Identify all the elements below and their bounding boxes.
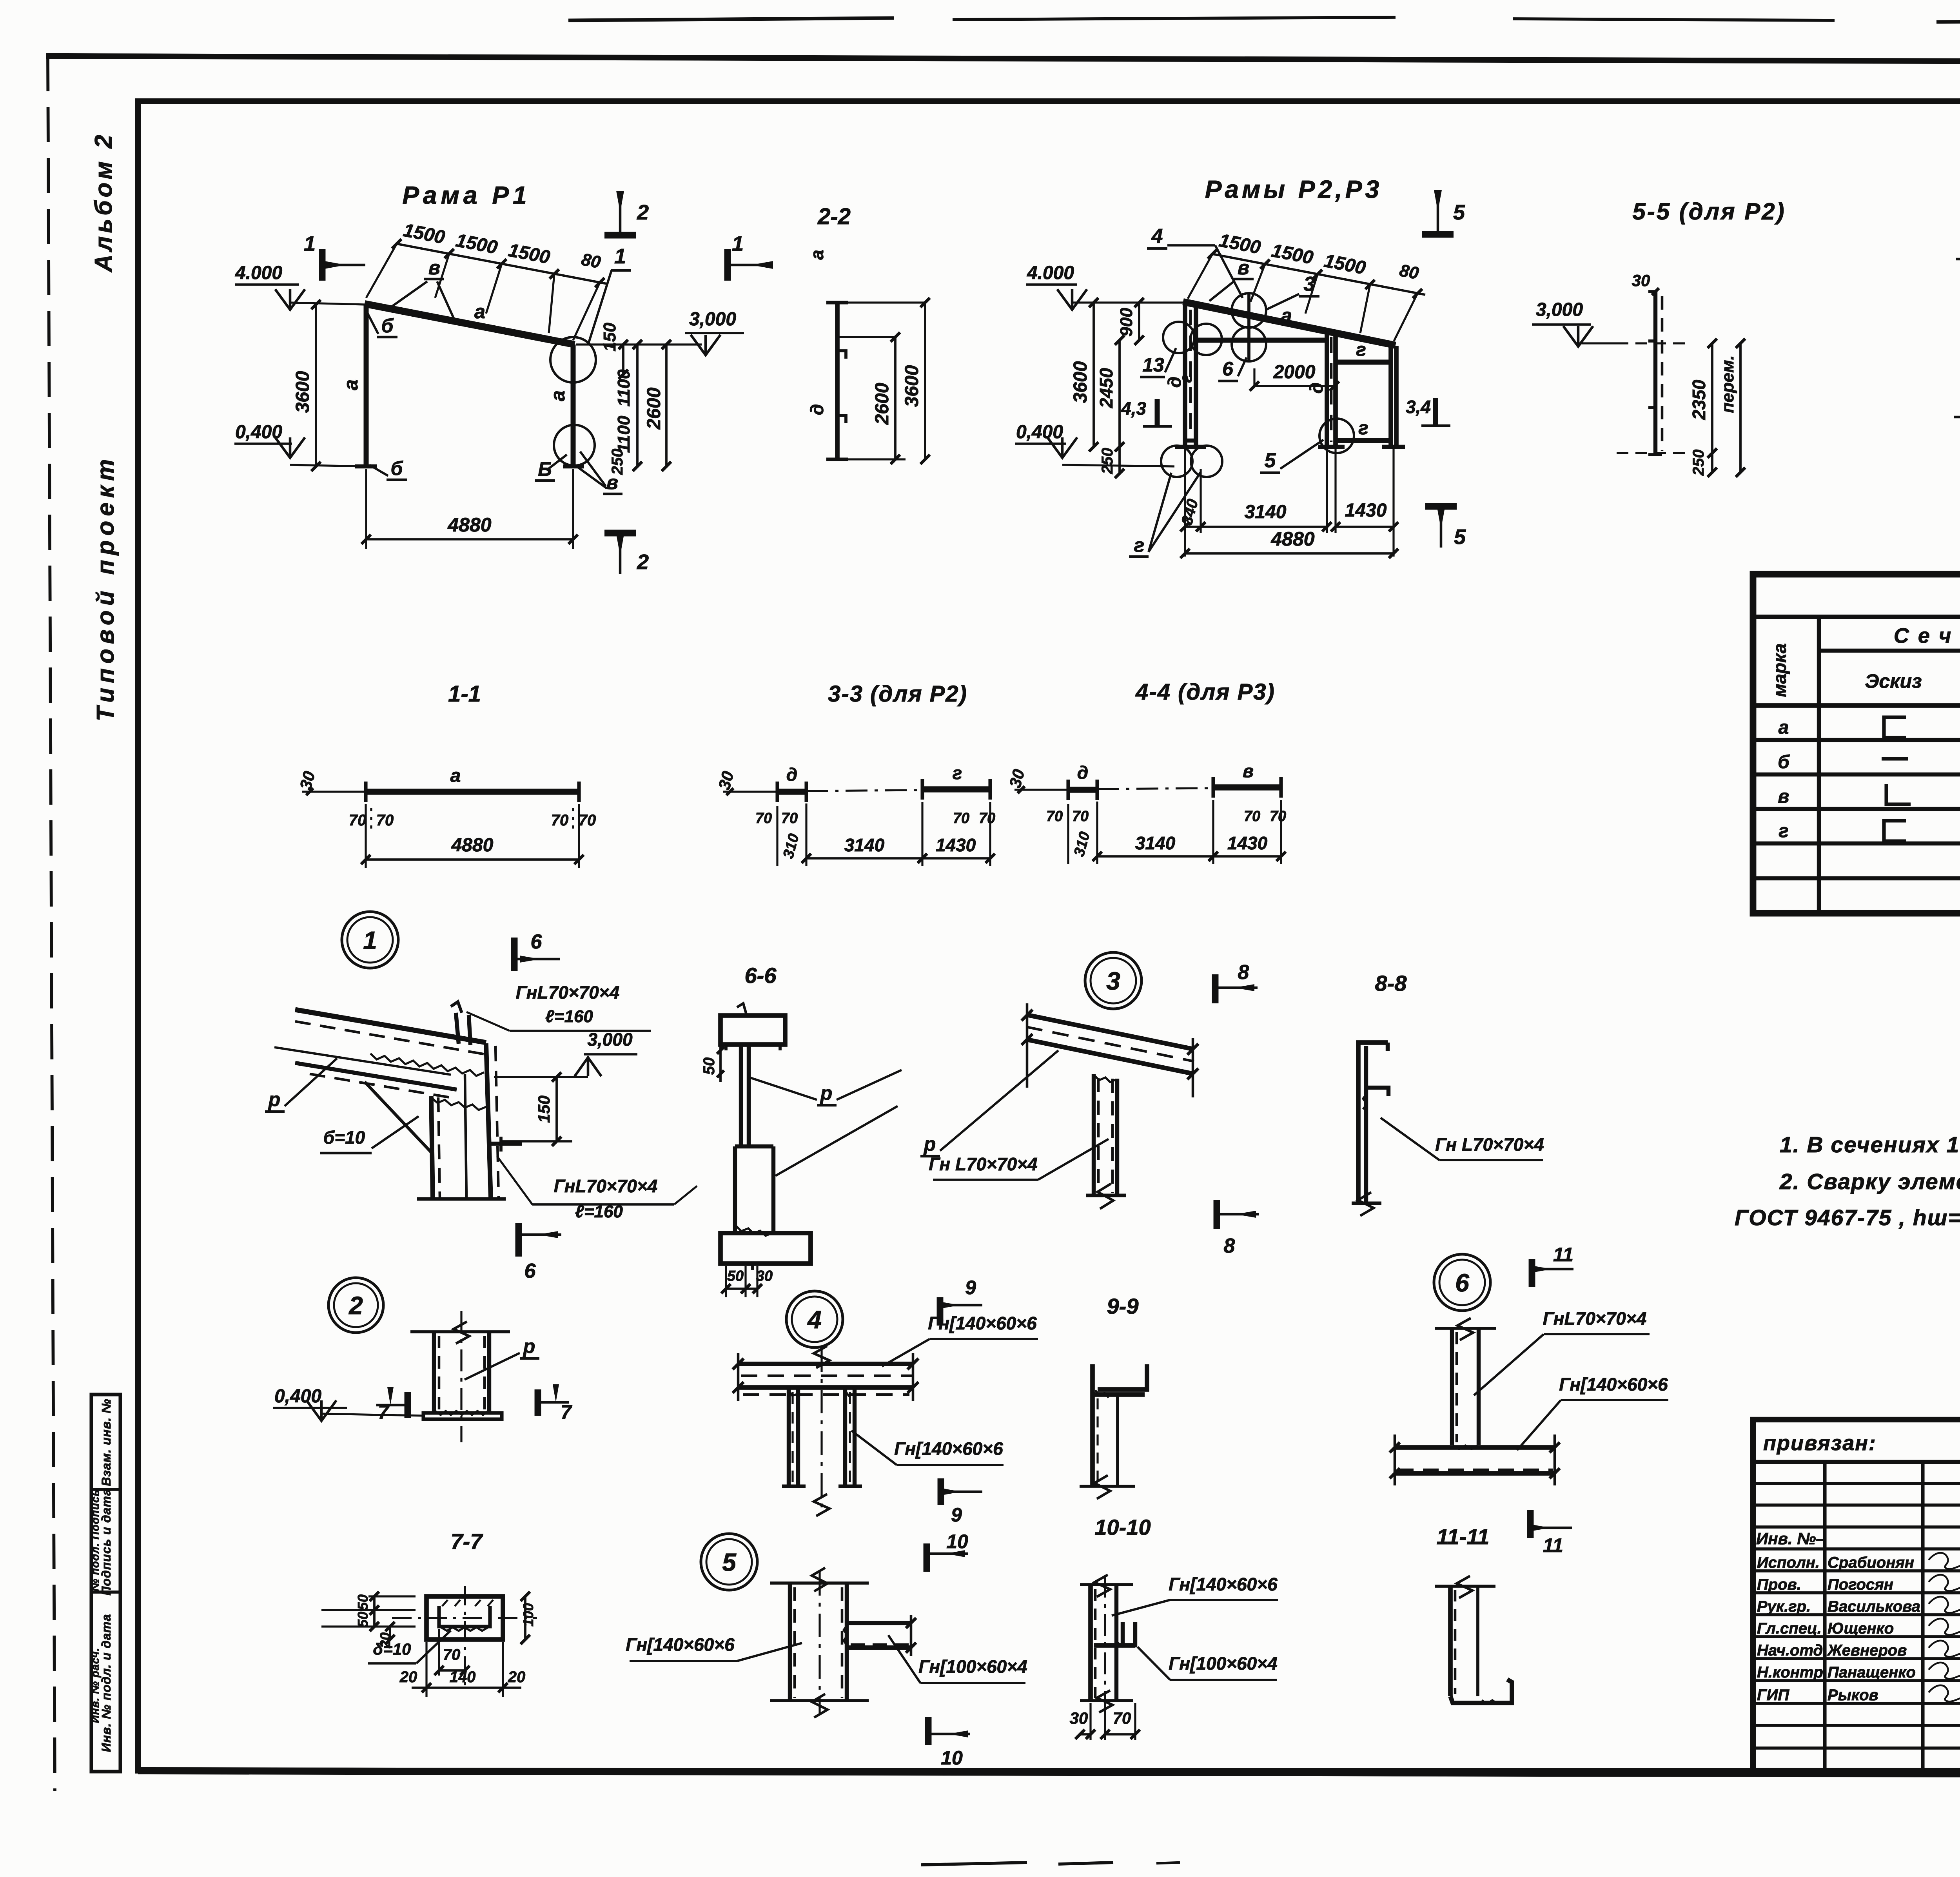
svg-text:ГнL70×70×4: ГнL70×70×4 xyxy=(1543,1308,1647,1329)
2 base plate xyxy=(423,1411,502,1419)
note line 2 xyxy=(1779,1169,1960,1194)
svg-text:а: а xyxy=(474,301,485,323)
svg-text:2450: 2450 xyxy=(1096,368,1116,408)
header Эскиз xyxy=(1865,670,1922,692)
title 3-3 (для Р2) xyxy=(828,681,967,707)
P1 section flag 1 right xyxy=(728,232,773,281)
4 label ГнС140х60х6 top xyxy=(882,1313,1038,1366)
P1 label б top xyxy=(368,314,397,337)
svg-text:Гн[140×60×6: Гн[140×60×6 xyxy=(894,1438,1003,1459)
svg-text:а: а xyxy=(807,250,827,260)
1 section flag 6 top xyxy=(514,930,560,971)
svg-text:250: 250 xyxy=(609,449,626,475)
P2 dim 2000 xyxy=(1250,362,1339,391)
P2 dim 900 xyxy=(1117,298,1144,345)
svg-text:20: 20 xyxy=(399,1668,417,1686)
6 beam xyxy=(1390,1434,1560,1485)
svg-text:1. В сечениях 1-1, 3-3, 4-4: 1. В сечениях 1-1, 3-3, 4-4 элемент „в“ … xyxy=(1780,1132,1960,1157)
1-1 dim 4880 xyxy=(361,804,584,868)
svg-text:Рук.гр.: Рук.гр. xyxy=(1757,1598,1811,1615)
svg-text:б=10: б=10 xyxy=(323,1127,365,1148)
svg-text:4880: 4880 xyxy=(1270,528,1314,550)
P2 beam г upper xyxy=(1336,339,1391,362)
svg-text:б: б xyxy=(1778,752,1790,773)
5-5 label 30 xyxy=(1632,271,1659,295)
svg-text:С е ч е н и е: С е ч е н и е xyxy=(1894,624,1960,647)
svg-text:11: 11 xyxy=(1543,1534,1563,1556)
svg-text:10-10: 10-10 xyxy=(1094,1515,1151,1540)
P1 bottom dim 4880 xyxy=(361,469,578,549)
svg-text:№ подл. Подпись: № подл. Подпись xyxy=(89,1489,101,1591)
svg-text:3,000: 3,000 xyxy=(1536,299,1583,320)
svg-text:4.000: 4.000 xyxy=(235,263,282,283)
svg-text:Исполн.: Исполн. xyxy=(1757,1554,1820,1571)
13 top break line xyxy=(1956,245,1960,273)
P1 detail circle node lower xyxy=(554,425,595,466)
svg-text:Инв. № расч.: Инв. № расч. xyxy=(89,1648,101,1723)
title Рама Р1 xyxy=(402,181,530,209)
svg-text:Жевнеров: Жевнеров xyxy=(1827,1642,1907,1659)
P2 label в xyxy=(1209,257,1254,301)
5 section flag 10 top xyxy=(927,1531,968,1572)
2 section flag 7 right xyxy=(538,1384,572,1423)
P2 beam level 900 xyxy=(1196,338,1327,343)
P1 section flag 2 top xyxy=(604,191,649,235)
1 gusset xyxy=(365,1054,484,1152)
P2 level 4.000 xyxy=(1026,263,1183,310)
7-7 axes xyxy=(392,1586,537,1685)
P2 left column xyxy=(1175,303,1206,447)
5 label ГнС140х60х6 xyxy=(626,1634,802,1661)
row в mark xyxy=(1778,786,1789,807)
svg-text:г: г xyxy=(1358,418,1368,439)
4-4 axis link xyxy=(1097,788,1213,789)
P1 right dim 250 xyxy=(609,449,626,475)
4 posts xyxy=(782,1387,862,1486)
1 label ГнL70х70х4 l=160 bottom xyxy=(497,1156,697,1221)
4-4 dim 1430 xyxy=(1209,800,1286,864)
svg-text:100: 100 xyxy=(520,1603,536,1627)
table row lines xyxy=(1753,740,1960,878)
P2 label д left col xyxy=(1164,377,1185,388)
svg-text:150: 150 xyxy=(535,1095,553,1123)
P1 dim 80 xyxy=(580,250,603,272)
svg-text:1430: 1430 xyxy=(936,835,976,855)
svg-text:Гл.спец.: Гл.спец. xyxy=(1757,1620,1822,1637)
1-1 dims 70 70 right xyxy=(551,808,596,833)
left bottom stamp strip xyxy=(89,1395,120,1772)
row a sketch channel xyxy=(1884,717,1906,738)
svg-text:70: 70 xyxy=(755,810,772,827)
P2 right column xyxy=(1382,345,1405,447)
svg-text:8: 8 xyxy=(1224,1235,1235,1257)
outer sheet border top xyxy=(46,56,1960,63)
svg-text:7-7: 7-7 xyxy=(451,1529,484,1554)
svg-text:Гн[140×60×6: Гн[140×60×6 xyxy=(928,1313,1037,1333)
svg-text:0,400: 0,400 xyxy=(1016,422,1063,443)
svg-text:4: 4 xyxy=(807,1306,822,1334)
4-4 extension left xyxy=(1005,767,1068,793)
svg-text:1430: 1430 xyxy=(1345,500,1387,521)
4 label ГнС140х60х6 low xyxy=(851,1431,1004,1465)
P2 dim 3600 xyxy=(1070,298,1098,452)
svg-text:Гн L70×70×4: Гн L70×70×4 xyxy=(929,1154,1037,1174)
P2 node circles left top xyxy=(1163,322,1222,355)
P1 level 4.000 xyxy=(235,263,365,310)
row г sketch channel xyxy=(1884,821,1906,841)
svg-text:Рыков: Рыков xyxy=(1828,1687,1878,1704)
detail circle 2 xyxy=(328,1278,383,1333)
svg-text:а: а xyxy=(1779,717,1789,738)
svg-text:250: 250 xyxy=(1099,448,1116,475)
svg-text:д: д xyxy=(1306,383,1327,394)
svg-text:70: 70 xyxy=(579,812,596,829)
6-6 label р xyxy=(751,1070,902,1176)
svg-text:в: в xyxy=(1243,761,1254,781)
P2 beam г lower xyxy=(1336,418,1391,441)
svg-text:б: б xyxy=(391,457,404,479)
P1 top dim line xyxy=(366,239,607,340)
svg-text:4: 4 xyxy=(1151,225,1163,248)
header Марка xyxy=(1769,643,1790,697)
svg-text:5-5 (для Р2): 5-5 (для Р2) xyxy=(1632,198,1786,225)
svg-text:3-3 (для Р2): 3-3 (для Р2) xyxy=(828,681,967,707)
3 label р xyxy=(920,1050,1058,1156)
1 label р xyxy=(265,1058,337,1112)
margin caption Типовой проект xyxy=(92,455,119,722)
svg-text:3: 3 xyxy=(1106,967,1120,995)
title 5-5 (для Р2) xyxy=(1632,198,1786,225)
svg-text:50: 50 xyxy=(701,1057,718,1075)
stamp column lines xyxy=(1825,1462,1960,1771)
2-2 dim 3600 xyxy=(837,298,930,464)
svg-text:50: 50 xyxy=(355,1612,371,1627)
svg-text:70: 70 xyxy=(979,810,995,827)
row г mark xyxy=(1779,821,1789,841)
svg-text:9: 9 xyxy=(951,1504,962,1526)
3-3 axis link xyxy=(806,790,922,791)
svg-text:250: 250 xyxy=(1690,450,1707,476)
1 column xyxy=(417,1043,506,1199)
svg-text:6: 6 xyxy=(1455,1269,1469,1297)
3 beam xyxy=(1022,1003,1198,1097)
1-1 dims 70 70 left xyxy=(349,808,394,833)
1 label б=10 xyxy=(320,1116,419,1153)
P1 level 0.400 xyxy=(234,422,365,466)
row a mark xyxy=(1779,717,1789,738)
5 section flag 10 bottom xyxy=(928,1717,970,1769)
svg-text:3140: 3140 xyxy=(1135,833,1176,853)
svg-text:11-11: 11-11 xyxy=(1437,1524,1490,1549)
svg-text:Эскиз: Эскиз xyxy=(1865,670,1922,692)
P1 label а right col xyxy=(547,390,569,401)
P1 right dim 1100 b xyxy=(614,340,642,471)
title 2-2 xyxy=(817,204,851,229)
svg-text:30: 30 xyxy=(1632,271,1650,290)
P1 detail circle node 1 xyxy=(550,337,596,383)
1 roof beam xyxy=(274,1010,486,1098)
P2 leader 5 xyxy=(1260,440,1323,473)
P1 dim 3600 xyxy=(292,300,321,471)
table Ведомость элементов outer xyxy=(1753,574,1960,913)
title 9-9 xyxy=(1107,1294,1139,1318)
svg-text:1430: 1430 xyxy=(1227,833,1268,853)
3-3 dim 1430 xyxy=(918,802,995,866)
svg-text:р: р xyxy=(523,1335,535,1357)
svg-text:Погосян: Погосян xyxy=(1828,1576,1893,1593)
P2 flag 4,3 xyxy=(1121,398,1172,426)
svg-text:р: р xyxy=(923,1133,936,1155)
svg-text:3,000: 3,000 xyxy=(689,309,736,330)
svg-text:Гн[140×60×6: Гн[140×60×6 xyxy=(1169,1574,1278,1594)
svg-text:3: 3 xyxy=(1304,273,1315,296)
svg-text:8: 8 xyxy=(1238,961,1249,984)
svg-text:20: 20 xyxy=(508,1668,526,1686)
svg-text:Гн[100×60×4: Гн[100×60×4 xyxy=(918,1656,1027,1677)
6-6 dims bottom xyxy=(721,1266,773,1297)
3-3 member г xyxy=(922,763,990,800)
svg-text:2: 2 xyxy=(348,1291,363,1320)
P1 left column xyxy=(355,305,377,466)
7-7 dim 100 right xyxy=(520,1592,536,1644)
5-5 level 3.000 xyxy=(1532,299,1617,346)
scan streak top a xyxy=(568,18,894,20)
4-4 dim 310 xyxy=(1071,830,1093,858)
title 10-10 xyxy=(1094,1515,1151,1540)
2 section flag 7 left xyxy=(376,1387,408,1423)
row б sketch strip xyxy=(1882,757,1908,760)
detail circle 1 xyxy=(342,912,398,968)
3 column xyxy=(1086,1074,1126,1209)
10-10 bracket channel xyxy=(1094,1622,1135,1647)
svg-text:Н.контр.: Н.контр. xyxy=(1757,1664,1828,1681)
6-6 bracket channel xyxy=(735,1146,773,1236)
svg-text:1: 1 xyxy=(363,926,377,954)
svg-text:Гн L70×70×4: Гн L70×70×4 xyxy=(1435,1134,1544,1155)
svg-text:марка: марка xyxy=(1769,643,1790,697)
svg-text:4880: 4880 xyxy=(451,835,494,856)
svg-text:150: 150 xyxy=(600,323,619,352)
scan streak top d xyxy=(1936,20,1960,22)
svg-text:ℓ=160: ℓ=160 xyxy=(545,1007,593,1026)
svg-text:70: 70 xyxy=(1270,808,1286,825)
P1 dim 1500 c xyxy=(506,240,552,268)
5-5 level line top xyxy=(1617,342,1686,344)
3-3 dim 310 xyxy=(780,832,802,860)
svg-text:в: в xyxy=(428,257,440,279)
2-2 label д xyxy=(807,404,827,415)
svg-text:80: 80 xyxy=(1398,261,1421,283)
P1 right dim 2600 xyxy=(644,340,671,471)
7-7 dims bottom xyxy=(399,1642,526,1697)
svg-text:ГОСТ 9467-75 , hш= 6 мм: ГОСТ 9467-75 , hш= 6 мм xyxy=(1735,1205,1960,1230)
P2 flag 3,4 right xyxy=(1406,397,1450,426)
5 label ГнС100х60х4 xyxy=(888,1635,1027,1683)
svg-text:6-6: 6-6 xyxy=(745,963,777,988)
P2 dim 250 xyxy=(1099,442,1124,478)
svg-text:50: 50 xyxy=(727,1268,744,1284)
svg-text:3,4: 3,4 xyxy=(1406,397,1431,417)
4-4 dim 3140 xyxy=(1093,802,1218,864)
svg-text:δ=10: δ=10 xyxy=(373,1640,411,1658)
P2 dim 2450 xyxy=(1096,336,1124,452)
P1 right dim 1100 a xyxy=(614,369,633,406)
3-3 dim 3140 xyxy=(802,803,927,866)
svg-text:1100: 1100 xyxy=(614,415,633,453)
svg-text:б: б xyxy=(381,315,394,337)
margin caption Альбом 2 xyxy=(90,132,117,273)
svg-text:1-1: 1-1 xyxy=(448,681,481,707)
P2 mid column xyxy=(1318,332,1345,447)
svg-text:70: 70 xyxy=(781,810,798,827)
svg-text:Инв. №–: Инв. №– xyxy=(1756,1529,1825,1548)
P2 leader 6 xyxy=(1218,357,1247,381)
P2 node circles left base xyxy=(1161,446,1222,477)
svg-text:ГнL70×70×4: ГнL70×70×4 xyxy=(516,982,620,1003)
svg-text:2600: 2600 xyxy=(644,387,664,430)
6-6 bottom flange xyxy=(720,1233,811,1270)
P2 dim 1500 c xyxy=(1322,250,1367,279)
svg-text:70: 70 xyxy=(551,812,569,829)
detail circle 3 xyxy=(1085,952,1142,1009)
svg-text:Гн[140×60×6: Гн[140×60×6 xyxy=(1559,1374,1668,1395)
svg-text:70: 70 xyxy=(376,812,394,829)
svg-text:50: 50 xyxy=(355,1594,371,1610)
svg-text:70: 70 xyxy=(1113,1709,1131,1727)
row в sketch angle xyxy=(1886,784,1911,804)
svg-text:4-4 (для Р3): 4-4 (для Р3) xyxy=(1135,679,1275,705)
svg-text:Гн[140×60×6: Гн[140×60×6 xyxy=(626,1634,735,1655)
row б mark xyxy=(1778,752,1790,773)
svg-text:а: а xyxy=(340,379,362,390)
1-1 member a xyxy=(366,765,579,802)
scan streak top c xyxy=(1513,19,1835,20)
P1 dim 1500 a xyxy=(401,220,446,248)
svg-text:Инв. № подл. и дата: Инв. № подл. и дата xyxy=(99,1614,113,1752)
svg-text:2-2: 2-2 xyxy=(817,204,851,229)
P2 leader 4 xyxy=(1147,225,1243,298)
svg-text:р: р xyxy=(268,1088,281,1110)
svg-text:ГнL70×70×4: ГнL70×70×4 xyxy=(554,1176,658,1196)
P2 left col web plate xyxy=(1176,374,1196,441)
svg-text:3,000: 3,000 xyxy=(587,1029,633,1050)
svg-text:9-9: 9-9 xyxy=(1107,1294,1139,1318)
title 1-1 xyxy=(448,681,481,707)
svg-text:30: 30 xyxy=(756,1268,773,1284)
P2 bottom dims xyxy=(1178,449,1398,558)
svg-text:р: р xyxy=(820,1082,833,1104)
svg-text:11: 11 xyxy=(1553,1244,1573,1266)
10-10 labels xyxy=(1112,1574,1278,1680)
stamp table привязан outer xyxy=(1753,1420,1960,1771)
P2 dim 1500 b xyxy=(1270,240,1315,268)
outer sheet border left xyxy=(48,56,55,1791)
2-2 dim 2600 xyxy=(837,332,906,464)
svg-text:2. Сварку элементов произво: 2. Сварку элементов производить электрод… xyxy=(1779,1169,1960,1194)
3 weld xyxy=(1094,1075,1116,1082)
svg-text:6: 6 xyxy=(531,930,543,953)
P1 top chord xyxy=(365,304,575,345)
5-5 member xyxy=(1648,292,1662,455)
3-3 extension left xyxy=(715,769,777,795)
svg-text:5: 5 xyxy=(722,1548,737,1576)
svg-text:70: 70 xyxy=(443,1646,461,1663)
svg-text:7: 7 xyxy=(561,1401,572,1423)
P1 section flag 2 bottom xyxy=(604,533,649,574)
svg-text:10: 10 xyxy=(941,1747,963,1769)
6 section flag 11 top xyxy=(1532,1244,1573,1287)
P1 section flag 1 left xyxy=(304,232,365,281)
svg-text:Ющенко: Ющенко xyxy=(1828,1620,1894,1637)
10-10 column xyxy=(1080,1575,1133,1717)
4-4 dims left xyxy=(1046,804,1089,864)
7-7 label б=10 xyxy=(368,1630,451,1663)
title 11-11 xyxy=(1437,1524,1490,1549)
svg-text:5: 5 xyxy=(1265,449,1276,472)
svg-text:5: 5 xyxy=(1453,201,1465,224)
svg-text:1: 1 xyxy=(732,232,744,256)
title 8-8 xyxy=(1375,971,1407,996)
2-2 label а xyxy=(807,250,827,260)
svg-text:3600: 3600 xyxy=(1070,361,1091,403)
svg-text:70: 70 xyxy=(349,812,367,829)
P2 dim 1500 a xyxy=(1217,230,1262,258)
svg-text:д: д xyxy=(786,764,797,785)
svg-text:140: 140 xyxy=(450,1668,476,1686)
table header lines xyxy=(1753,651,1960,705)
svg-text:3600: 3600 xyxy=(902,365,922,407)
P1 label б bottom left xyxy=(369,457,407,480)
svg-text:г: г xyxy=(953,763,962,783)
detail circle 4 xyxy=(786,1291,843,1347)
svg-text:6: 6 xyxy=(524,1260,536,1282)
1 bracket mark xyxy=(491,1137,522,1152)
svg-text:д: д xyxy=(807,404,827,415)
P2 node circle mid base xyxy=(1319,419,1354,453)
detail circle 6 xyxy=(1434,1254,1490,1311)
2 level 0.400 xyxy=(273,1386,423,1421)
svg-text:Рама Р1: Рама Р1 xyxy=(402,181,530,209)
3 section flag 8 bottom xyxy=(1217,1200,1259,1257)
svg-text:1100: 1100 xyxy=(614,369,633,406)
note line 3 xyxy=(1735,1205,1960,1230)
svg-text:13: 13 xyxy=(1142,354,1164,376)
1 level 3.000 xyxy=(494,1029,637,1077)
svg-text:4880: 4880 xyxy=(447,514,491,536)
P1 label а left col xyxy=(340,379,362,390)
svg-text:2: 2 xyxy=(637,550,649,574)
svg-text:4,3: 4,3 xyxy=(1121,398,1146,419)
P1 dim 1500 b xyxy=(454,230,499,258)
2 label р xyxy=(465,1335,539,1380)
svg-text:70: 70 xyxy=(1046,808,1063,825)
P2 dim 80 xyxy=(1398,261,1421,283)
P2 node circles mid top xyxy=(1232,293,1266,361)
P2 leader 13 xyxy=(1140,348,1176,377)
svg-text:2600: 2600 xyxy=(872,383,893,425)
svg-text:2000: 2000 xyxy=(1273,362,1316,383)
7-7 channel inside xyxy=(439,1600,493,1631)
1 beam end stub xyxy=(451,1002,470,1045)
3-3 dims right xyxy=(953,810,995,827)
svg-text:Типовой проект: Типовой проект xyxy=(92,455,119,722)
svg-text:а: а xyxy=(1281,305,1292,326)
title 4-4 (для Р3) xyxy=(1135,679,1275,705)
svg-text:г: г xyxy=(1779,821,1789,841)
svg-text:в: в xyxy=(1778,786,1789,807)
svg-text:перем.: перем. xyxy=(1718,355,1737,413)
svg-text:а: а xyxy=(450,765,461,786)
